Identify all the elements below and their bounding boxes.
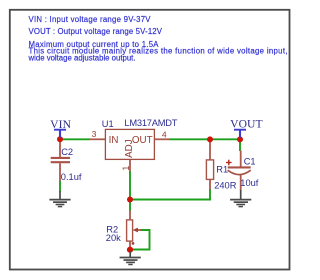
svg-text:VIN: VIN (50, 118, 71, 131)
svg-text:ADJ: ADJ (124, 139, 135, 158)
svg-text:U1: U1 (102, 119, 114, 129)
svg-text:10uf: 10uf (240, 178, 259, 188)
svg-text:VOUT : Output voltage range 5V: VOUT : Output voltage range 5V-12V (29, 27, 163, 36)
svg-text:OUT: OUT (132, 135, 153, 146)
svg-text:4: 4 (162, 129, 167, 139)
svg-text:VOUT: VOUT (230, 118, 263, 131)
svg-text:IN: IN (109, 135, 119, 146)
svg-text:LM317AMDT: LM317AMDT (124, 118, 177, 128)
svg-text:wide voltage adjustable output: wide voltage adjustable output. (28, 54, 136, 63)
svg-text:0.1uf: 0.1uf (61, 172, 82, 182)
svg-text:C1: C1 (244, 157, 256, 167)
svg-text:240R: 240R (214, 180, 237, 190)
svg-text:R1: R1 (216, 165, 228, 175)
svg-text:C2: C2 (61, 147, 73, 157)
svg-text:3: 3 (92, 129, 97, 139)
svg-text:1: 1 (121, 166, 131, 171)
svg-text:VIN : Input voltage range 9V-3: VIN : Input voltage range 9V-37V (29, 15, 152, 24)
svg-text:20k: 20k (106, 233, 121, 243)
